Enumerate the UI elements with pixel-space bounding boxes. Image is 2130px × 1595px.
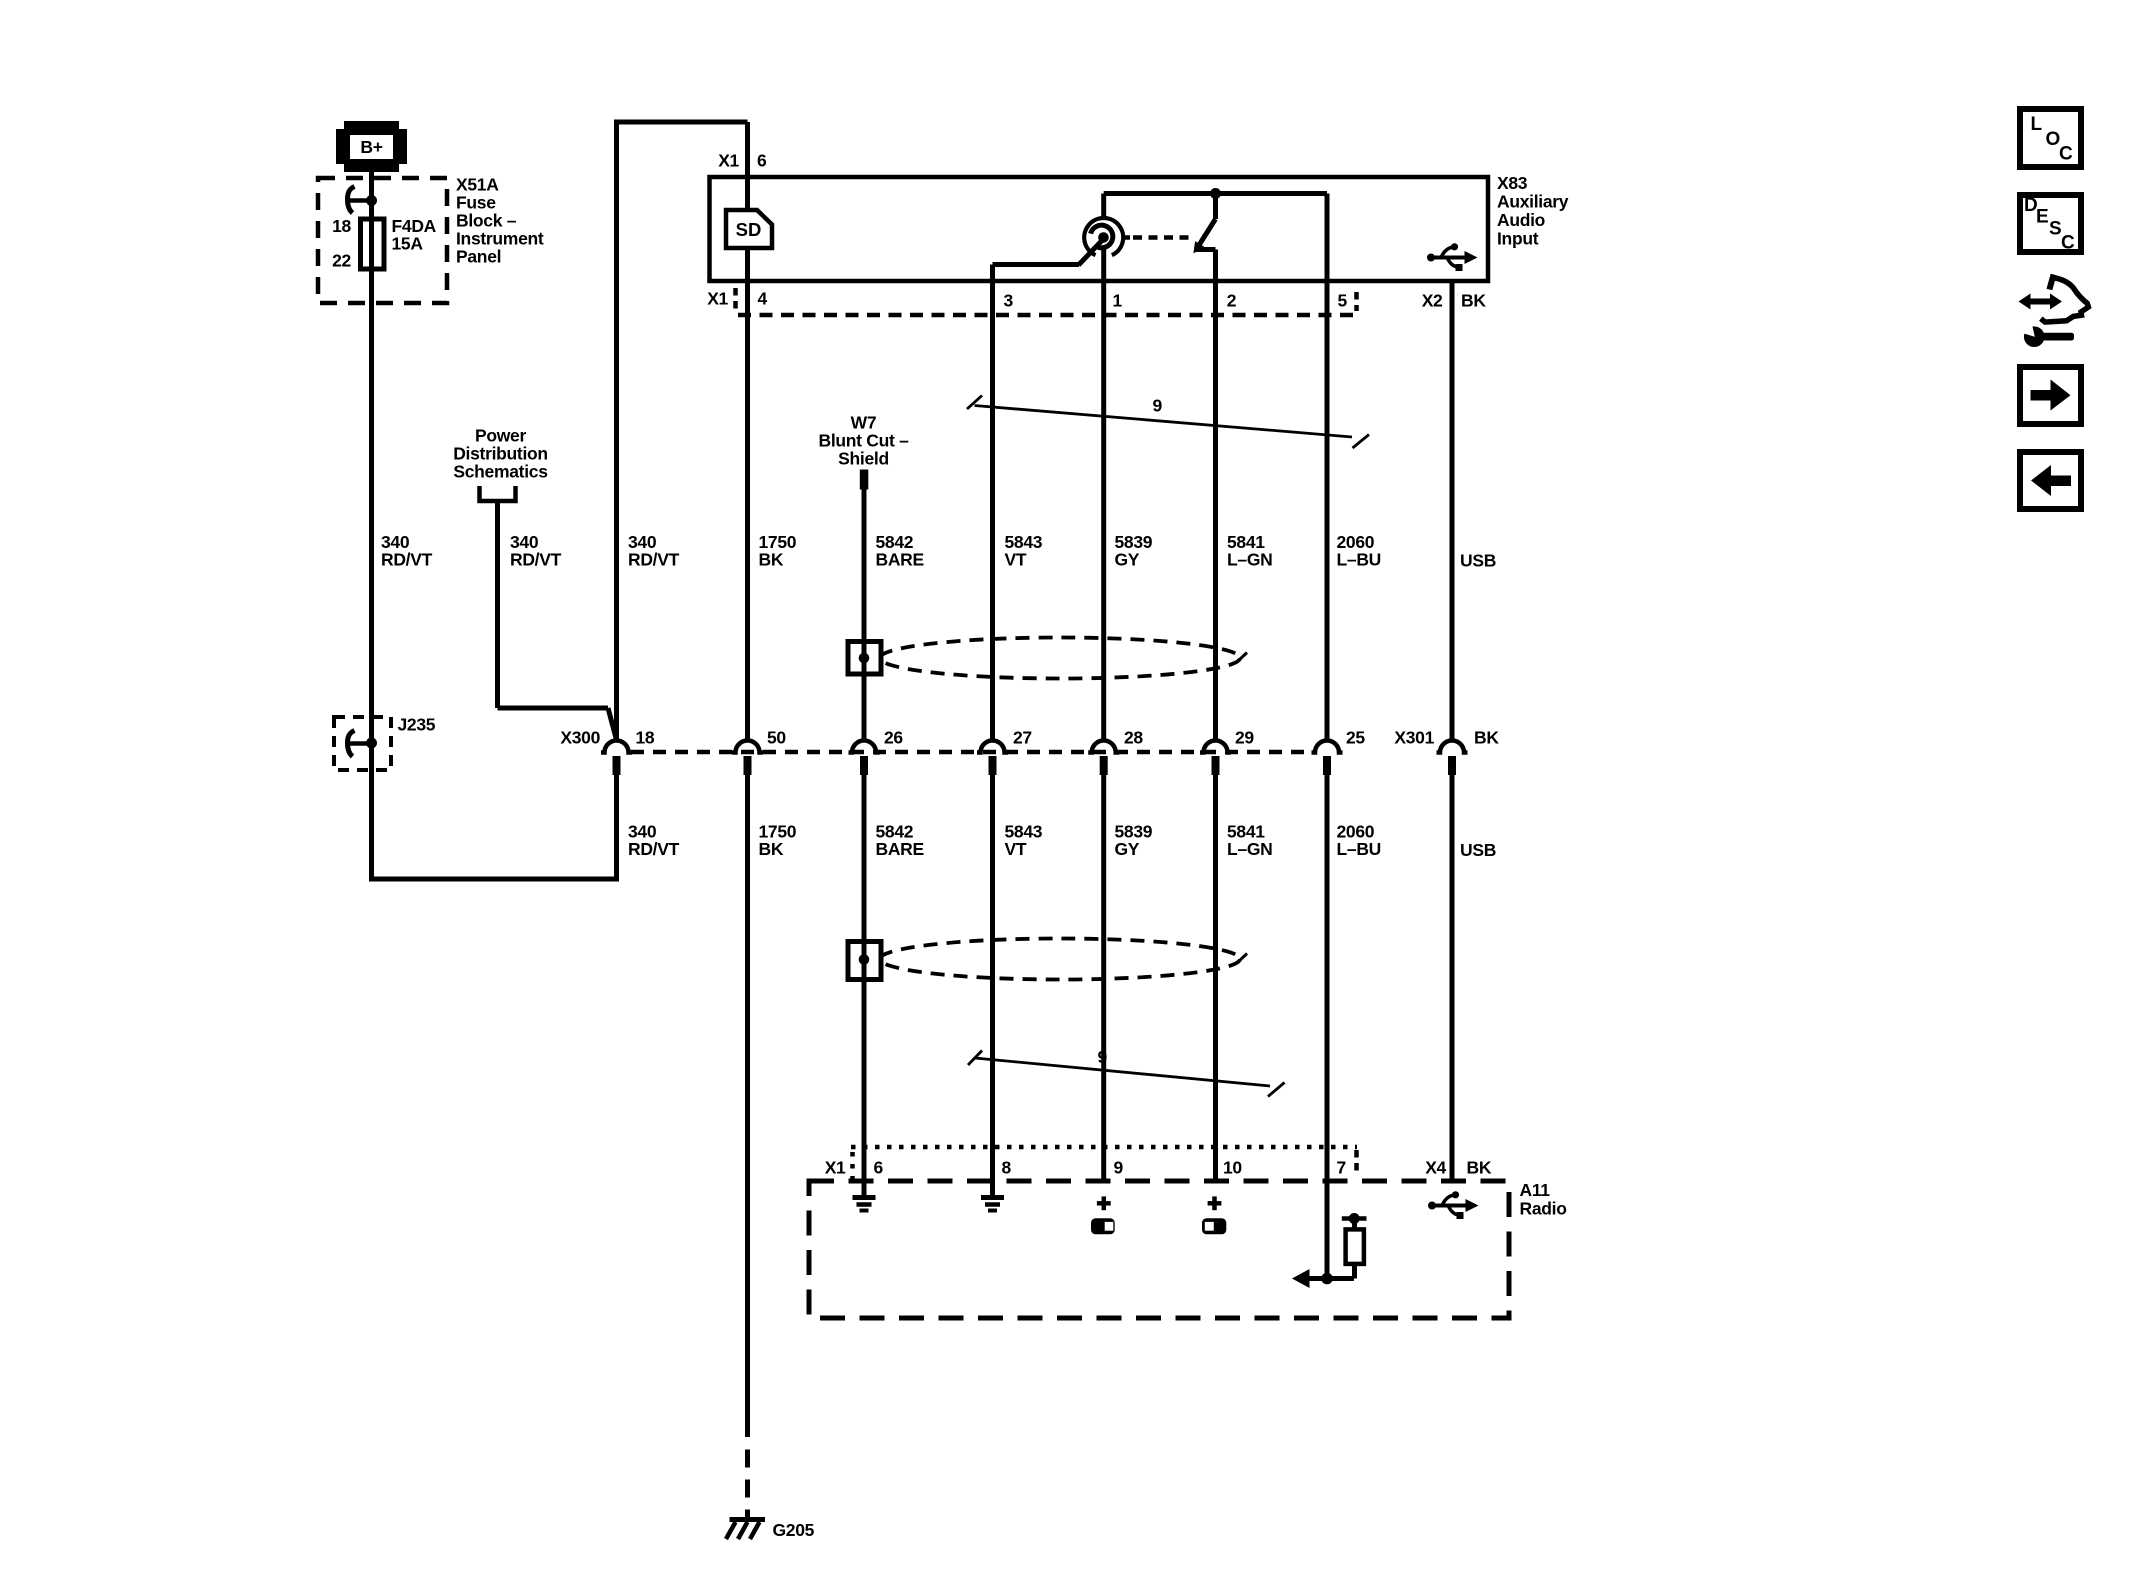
svg-text:RD/VT: RD/VT <box>510 550 562 570</box>
svg-text:15A: 15A <box>392 234 424 254</box>
svg-text:USB: USB <box>1460 551 1496 571</box>
wire power distribution drop <box>495 501 500 708</box>
fuse F4DA 15A <box>361 219 385 269</box>
radio connector dotted row <box>851 1145 1357 1150</box>
svg-text:27: 27 <box>1013 728 1032 748</box>
svg-text:BK: BK <box>1474 728 1499 748</box>
fuse block X51A dashed box <box>318 178 447 303</box>
wire USB X2 to X301 <box>1450 281 1455 740</box>
wire 1750 BK pin4 down to X300 pin 50 <box>745 281 750 740</box>
svg-text:X1: X1 <box>707 289 728 309</box>
wire 1750 BK dashed to ground <box>745 1450 750 1518</box>
svg-text:C: C <box>2059 144 2073 165</box>
svg-text:GY: GY <box>1115 550 1140 570</box>
svg-text:RD/VT: RD/VT <box>628 839 680 859</box>
svg-text:BK: BK <box>1461 291 1486 311</box>
X300 X301 inline connector row <box>601 741 1468 776</box>
svg-text:A11: A11 <box>1520 1180 1551 1200</box>
svg-text:X2: X2 <box>1422 291 1443 311</box>
svg-text:Fuse: Fuse <box>456 193 496 213</box>
svg-text:8: 8 <box>1002 1158 1012 1178</box>
chassis ground G205 <box>726 1520 765 1540</box>
wrench <box>2024 326 2045 347</box>
wire B+ to fuse (340 RD/VT) <box>369 168 374 879</box>
svg-text:BK: BK <box>1467 1158 1492 1178</box>
radio pin7 internal arrow <box>1292 1269 1310 1288</box>
svg-text:18: 18 <box>332 216 351 236</box>
svg-text:L–GN: L–GN <box>1227 550 1272 570</box>
svg-text:L–GN: L–GN <box>1227 839 1272 859</box>
svg-text:28: 28 <box>1124 728 1143 748</box>
svg-text:9: 9 <box>1098 1047 1108 1067</box>
svg-text:G205: G205 <box>773 1520 815 1540</box>
svg-text:5: 5 <box>1338 291 1348 311</box>
junction dot at fuse block pin <box>366 195 377 206</box>
svg-text:BK: BK <box>759 550 784 570</box>
svg-text:Power: Power <box>475 426 527 446</box>
svg-text:2: 2 <box>1227 291 1237 311</box>
svg-text:BARE: BARE <box>876 839 924 859</box>
connector pin 18 hook in fuse block <box>348 187 355 214</box>
wire top horizontal to X1-6 <box>614 120 748 125</box>
J235 connector hook <box>348 731 355 757</box>
svg-text:RD/VT: RD/VT <box>381 550 433 570</box>
shield connection box lower <box>848 942 881 980</box>
vehicle outline <box>2049 275 2053 290</box>
svg-text:25: 25 <box>1346 728 1365 748</box>
svg-text:Panel: Panel <box>456 247 501 267</box>
svg-text:4: 4 <box>758 289 768 309</box>
X83 auxiliary audio input box <box>710 177 1489 281</box>
svg-text:Block –: Block – <box>456 211 517 231</box>
wire 1750 BK below X300 to G205 <box>745 774 750 1437</box>
wire 5843 VT below X300 to radio ground <box>990 774 995 1196</box>
svg-text:1: 1 <box>1113 291 1123 311</box>
dashed bracket under X83 connector X1 <box>733 288 738 311</box>
W7 blunt cut bar <box>860 470 869 490</box>
svg-text:X1: X1 <box>718 151 739 171</box>
double arrow <box>2019 294 2063 310</box>
svg-text:L: L <box>2031 114 2043 135</box>
wire 5841 L-GN below X300 to radio pin 10 <box>1213 774 1218 1183</box>
connector hooks <box>601 741 1468 753</box>
svg-text:B+: B+ <box>360 137 382 157</box>
speaker icon radio pin 10 <box>1202 1218 1226 1234</box>
dashed harness line <box>631 750 1314 755</box>
wire jack horizontal to pin3 <box>993 262 1080 267</box>
wire power distribution horizontal <box>498 706 609 711</box>
power distribution bracket <box>480 486 516 501</box>
USB symbol in X83 <box>1427 243 1478 271</box>
svg-text:7: 7 <box>1337 1158 1346 1178</box>
ground symbol radio pin 8 <box>981 1198 1004 1211</box>
wire 2060 L-BU pin5 drop to X300 pin 25 <box>1325 194 1330 741</box>
forward arrow icon <box>2020 367 2081 424</box>
wire jack diagonal <box>1079 241 1103 266</box>
svg-text:GY: GY <box>1115 839 1140 859</box>
battery feed B+ terminal <box>336 121 407 172</box>
svg-text:Distribution: Distribution <box>453 444 548 464</box>
svg-text:3: 3 <box>1004 291 1014 311</box>
twisted pair marker lower <box>968 1051 1285 1097</box>
vehicle wrench icon <box>2019 275 2089 348</box>
audio jack symbol outer ring <box>1084 218 1123 255</box>
wire bottom loop horizontal <box>369 877 617 882</box>
audio jack center tip dot <box>1098 232 1109 243</box>
wire 5842 BARE below X300 to radio ground <box>862 774 867 1196</box>
svg-text:J235: J235 <box>398 715 436 735</box>
svg-text:18: 18 <box>636 728 655 748</box>
resistor in radio <box>1352 1263 1357 1279</box>
svg-text:RD/VT: RD/VT <box>628 550 680 570</box>
svg-text:Radio: Radio <box>1520 1199 1567 1219</box>
wire 5843 VT from jack to X300 pin 27 <box>990 265 995 741</box>
twisted pair marker upper <box>967 396 1369 449</box>
DESC navigation icon <box>2020 195 2081 254</box>
svg-text:VT: VT <box>1005 550 1027 570</box>
svg-text:Schematics: Schematics <box>453 462 548 482</box>
svg-text:X83: X83 <box>1497 173 1528 193</box>
switch arrowhead <box>1193 241 1204 253</box>
junction dot pin7 <box>1321 1273 1333 1285</box>
svg-text:X300: X300 <box>560 728 600 748</box>
svg-text:9: 9 <box>1114 1158 1124 1178</box>
connector pin stubs <box>613 756 1457 775</box>
SD card symbol <box>726 210 772 248</box>
junction dot switch feed <box>1210 188 1221 199</box>
shield ellipse lower <box>880 939 1240 980</box>
svg-text:6: 6 <box>874 1158 884 1178</box>
svg-text:50: 50 <box>767 728 786 748</box>
svg-text:VT: VT <box>1005 839 1027 859</box>
svg-text:L–BU: L–BU <box>1337 839 1382 859</box>
ground symbol radio pin 6 <box>853 1198 876 1211</box>
wire X1-6 drop into X83 <box>745 122 750 281</box>
svg-text:Blunt Cut –: Blunt Cut – <box>818 431 909 451</box>
wire switch upper stub <box>1213 194 1218 220</box>
wire jack sleeve riser <box>1101 194 1106 219</box>
svg-text:SD: SD <box>736 219 762 240</box>
svg-text:S: S <box>2049 219 2062 240</box>
shield ellipse upper <box>880 638 1240 679</box>
svg-text:Shield: Shield <box>838 449 889 469</box>
svg-text:X301: X301 <box>1394 728 1434 748</box>
wire 340 RD/VT riser to top <box>614 122 619 740</box>
wire 5842 BARE shield from blunt cut to X300 pin 26 <box>862 488 867 740</box>
speaker icon radio pin 9 <box>1091 1218 1115 1234</box>
svg-text:L–BU: L–BU <box>1337 550 1382 570</box>
J235 splice dashed box <box>334 717 391 770</box>
svg-text:Audio: Audio <box>1497 210 1545 230</box>
svg-text:22: 22 <box>332 251 351 271</box>
svg-text:W7: W7 <box>851 413 877 433</box>
wire 5839 GY jack tip to X300 pin 28 <box>1101 248 1106 740</box>
svg-text:26: 26 <box>884 728 903 748</box>
svg-text:Auxiliary: Auxiliary <box>1497 192 1569 212</box>
wire switch blade <box>1198 219 1216 248</box>
svg-text:Input: Input <box>1497 229 1539 249</box>
plus mark radio pin 9 <box>1097 1196 1111 1210</box>
wire USB below X301 to radio X4 <box>1450 774 1455 1181</box>
svg-text:9: 9 <box>1153 396 1163 416</box>
svg-text:USB: USB <box>1460 840 1496 860</box>
wire inner top horizontal in X83 <box>1104 191 1327 196</box>
A11 radio dashed box <box>809 1181 1509 1318</box>
audio jack symbol middle ring <box>1091 225 1113 248</box>
back arrow icon <box>2020 452 2081 509</box>
USB symbol in radio <box>1428 1191 1479 1219</box>
wire switch lower jog <box>1196 247 1216 252</box>
wire 2060 L-BU below X300 into radio pin 7 <box>1325 774 1330 1281</box>
dashed link jack to switch <box>1123 235 1130 240</box>
svg-text:E: E <box>2036 207 2049 228</box>
shield connection box upper <box>848 642 881 675</box>
svg-text:X51A: X51A <box>456 175 499 195</box>
svg-text:C: C <box>2061 233 2075 254</box>
svg-text:X1: X1 <box>825 1158 846 1178</box>
svg-text:X4: X4 <box>1425 1158 1446 1178</box>
junction dot J235 <box>366 738 377 749</box>
svg-text:6: 6 <box>757 151 767 171</box>
svg-text:BK: BK <box>759 839 784 859</box>
svg-text:BARE: BARE <box>876 550 924 570</box>
wire riser below X300 pin 18 <box>614 774 619 882</box>
wire 5841 L-GN switch to X300 pin 29 <box>1213 250 1218 741</box>
svg-text:Instrument: Instrument <box>456 229 544 249</box>
wire power distribution diagonal into X300 pin 18 <box>608 708 616 738</box>
LOC navigation icon <box>2020 109 2081 167</box>
svg-text:10: 10 <box>1223 1158 1242 1178</box>
plus mark radio pin 10 <box>1208 1196 1222 1210</box>
svg-text:29: 29 <box>1235 728 1254 748</box>
wire 5839 GY below X300 to radio pin 9 <box>1101 774 1106 1183</box>
